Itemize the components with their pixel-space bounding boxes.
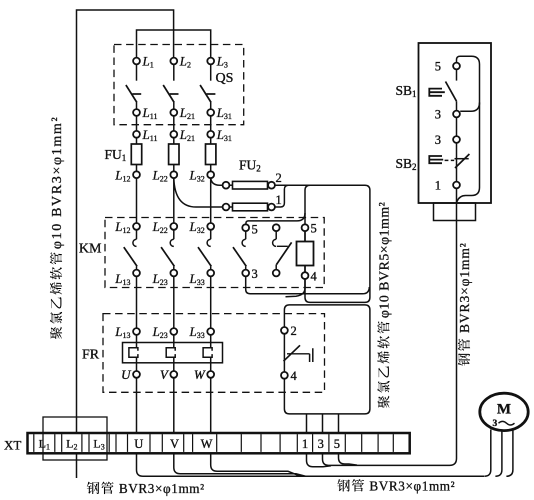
wire KM main 1 upper stub <box>136 230 138 239</box>
relay FR NC contact bar <box>287 353 310 355</box>
relay FR heater 1 top terminal L13 <box>133 328 140 335</box>
wire from QS L11 to fuse FU1 terminal <box>136 116 138 131</box>
contactor KM aux NC arc symbol <box>273 239 277 246</box>
svg-text:5: 5 <box>334 437 340 451</box>
wire from QS L21 to fuse FU1 terminal <box>173 116 175 131</box>
wire FR heater 1 stub <box>136 335 138 348</box>
wire L12 from FU1 to KM main contact <box>136 178 138 223</box>
svg-text:V: V <box>170 437 179 451</box>
label: steel pipe bottom-right <box>337 479 455 494</box>
relay FR heater block outline <box>123 343 223 363</box>
wire: three-phase supply run (left riser, top run, drop to QS) <box>77 10 174 478</box>
wire L32 from FU1 to KM main contact <box>210 178 212 223</box>
wire 3 from KM aux to conduit <box>246 276 370 293</box>
fuse FU1 pole 1 top terminal L11 <box>133 131 140 138</box>
relay FR NC contact: top terminal 2 <box>281 327 288 334</box>
wire FR heater 3 stub <box>210 335 212 348</box>
wire from KM L13 down to FR heater 1 <box>136 276 138 328</box>
SB terminal 3 (upper) <box>453 111 460 118</box>
wire stub below SB terminal 5 <box>456 69 458 80</box>
switch QS pole 2 crossbar <box>170 93 179 95</box>
SB terminal 1 <box>453 182 460 189</box>
label: steel pipe bottom-left <box>87 481 205 496</box>
relay FR NC contact blade <box>284 345 301 361</box>
switch QS pole 1 crossbar <box>132 93 141 95</box>
wire 1 riser joining control harness <box>275 185 288 207</box>
wire branch L32 to control fuse FU2 upper <box>211 178 223 185</box>
wire SB1 lower stub <box>456 101 458 110</box>
contactor KM aux NO blade <box>233 247 246 266</box>
FR thermal-relay enclosure (dashed) <box>103 314 325 393</box>
wire 3 from XT down to button-station pipe <box>323 453 329 465</box>
pushbutton SB2 NC blade <box>455 154 469 168</box>
fuse FU1 pole 2 body <box>169 144 179 165</box>
svg-text:XT: XT <box>4 438 21 453</box>
svg-text:W: W <box>201 437 213 451</box>
relay FR output terminal W <box>207 371 214 378</box>
contactor KM main 2 arc symbol <box>170 239 174 246</box>
wire: supply fan-out bridge to QS poles L1 and L3 <box>137 30 211 58</box>
wire stubs from conduit to XT terminals 1 3 5 <box>306 414 308 433</box>
contactor KM main 3 bottom terminal L33 <box>210 266 212 269</box>
wire FR heater 3 lower stub <box>210 357 212 371</box>
fuse FU2 upper output terminal, wire 2 <box>268 182 275 189</box>
svg-text:1: 1 <box>276 193 282 207</box>
fuse FU1 pole 3 body <box>206 144 216 165</box>
fuse FU1 pole 3 top terminal L31 <box>207 131 214 138</box>
relay FR output terminal V <box>170 371 177 378</box>
wire KM aux NC upper stub <box>275 231 277 239</box>
terminal strip XT cell dividers <box>33 434 35 452</box>
relay FR heater 3 element <box>203 348 212 358</box>
wire FR heater 1 lower stub <box>136 357 138 371</box>
svg-text:KM: KM <box>79 242 102 257</box>
relay FR NC contact: bottom terminal 4 <box>281 372 288 379</box>
SB terminal 5 <box>453 63 460 70</box>
wire SB2 spine <box>456 143 458 182</box>
relay FR NC reset hook <box>310 348 313 362</box>
label: PVC tube middle (rotated) <box>377 202 392 408</box>
contactor KM aux NC bar <box>277 245 288 247</box>
pushbutton SB1 NO blade <box>446 82 457 102</box>
svg-text:5: 5 <box>252 222 258 236</box>
contactor KM aux NC blade <box>276 242 291 264</box>
wire branch L22 to control fuse FU2 lower <box>174 178 223 207</box>
pushbutton SB1 actuator <box>429 89 445 96</box>
wire QS pole 1 upper stub <box>136 64 138 80</box>
svg-text:W: W <box>194 367 206 382</box>
coil KM bottom terminal 4 <box>304 266 306 273</box>
svg-text:U: U <box>134 437 143 451</box>
svg-text:BVR3×φ1mm²: BVR3×φ1mm² <box>369 479 455 494</box>
switch QS pole 2 blade <box>163 85 174 103</box>
SB terminal 3 (lower) <box>453 136 460 143</box>
fuse FU2 lower: input terminal <box>223 204 230 211</box>
coil KM body <box>297 242 314 266</box>
svg-text:4: 4 <box>291 369 298 383</box>
pushbutton SB2 NC bar <box>455 158 469 160</box>
switch QS pole 1: terminal L1 <box>133 58 140 65</box>
relay FR heater 1 element <box>129 348 138 358</box>
switch QS pole 2 lower terminal L21 <box>173 103 175 110</box>
button station cable entry <box>434 203 476 221</box>
wire from KM L33 down to FR heater 3 <box>210 276 212 328</box>
wire 5 branch to KM aux NO terminal 5 <box>246 213 305 224</box>
wire link between the two 3 terminals <box>456 117 458 136</box>
button station SB enclosure <box>419 43 492 203</box>
svg-text:U: U <box>121 367 132 382</box>
contactor KM main 2 bottom terminal L23 <box>173 266 175 269</box>
wire below terminal 1 exiting box <box>456 188 458 219</box>
relay FR output terminal U <box>133 371 140 378</box>
wire U from XT to motor <box>137 453 485 476</box>
fuse FU1 pole 2 bottom terminal L22 <box>170 171 177 178</box>
wire W from FR to terminal strip XT <box>210 378 212 433</box>
wire L22 from FU1 to KM main contact <box>173 178 175 223</box>
svg-text:3: 3 <box>493 419 498 429</box>
QS disconnect-switch enclosure (dashed) <box>114 45 244 125</box>
wire KM aux NO upper stub <box>245 231 247 239</box>
contactor KM main contact 2: top terminal L22 <box>170 223 177 230</box>
switch QS pole 3: terminal L3 <box>207 58 214 65</box>
wire SB harness loop (right side) with hook to terminal 3 <box>457 56 480 202</box>
wire 4 from KM coil toward FR <box>286 279 306 297</box>
svg-text:2: 2 <box>276 171 282 185</box>
pushbutton SB2 dashed link <box>445 159 455 161</box>
switch QS pole 2: terminal L2 <box>170 58 177 65</box>
svg-text:QS: QS <box>216 71 234 86</box>
svg-text:2: 2 <box>291 324 297 338</box>
relay FR heater 3 top terminal L33 <box>207 328 214 335</box>
svg-text:φ10 BVR3×φ1mm²: φ10 BVR3×φ1mm² <box>50 116 65 249</box>
wire V from FR to terminal strip XT <box>173 378 175 433</box>
pushbutton SB2 actuator <box>429 156 443 163</box>
wire KM main 2 upper stub <box>173 230 175 239</box>
wire 5 from XT down to button-station pipe <box>339 453 358 465</box>
label: steel pipe right (rotated) <box>457 242 472 365</box>
contactor KM main 1 blade <box>124 247 137 266</box>
PVC conduit lower section outline (rounded) with FR wires 2/4 <box>284 305 370 414</box>
contactor KM main 1 bottom terminal L13 <box>136 266 138 269</box>
wire motor lead 1 <box>484 430 491 477</box>
svg-text:3: 3 <box>435 108 441 122</box>
contactor KM auxiliary NC contact: top terminal <box>273 224 280 231</box>
svg-text:5: 5 <box>435 60 441 74</box>
svg-text:3: 3 <box>252 267 258 281</box>
contactor KM main contact 3: top terminal L32 <box>207 223 214 230</box>
motor M body <box>480 393 528 430</box>
contactor KM main contact 1: top terminal L12 <box>133 223 140 230</box>
switch QS pole 1 blade <box>126 85 137 103</box>
fuse FU1 pole 3 bottom terminal L32 <box>207 171 214 178</box>
wire through fuse FU1 pole 1 <box>136 138 138 172</box>
fuse FU2 upper body <box>229 184 232 186</box>
fuse FU1 pole 1 bottom terminal L12 <box>133 171 140 178</box>
wire from QS L31 to fuse FU1 terminal <box>210 116 212 131</box>
svg-text:FR: FR <box>82 348 100 363</box>
switch QS pole 1 lower terminal L11 <box>136 103 138 110</box>
wire U from FR to terminal strip XT <box>136 378 138 433</box>
wire through fuse FU1 pole 2 <box>173 138 175 172</box>
wire motor lead 3 <box>506 428 513 476</box>
switch QS pole 3 crossbar <box>207 93 216 95</box>
wire 1 from XT down to button-station pipe <box>307 453 332 467</box>
fuse FU1 pole 1 body <box>131 144 141 165</box>
wire motor lead 2 <box>495 431 502 477</box>
contactor KM main 2 blade <box>161 247 174 266</box>
svg-text:M: M <box>497 402 511 418</box>
wire QS pole 3 upper stub <box>210 64 212 80</box>
svg-text:1: 1 <box>302 437 308 451</box>
wire FR heater 2 lower stub <box>173 357 175 371</box>
wire coil upper stub <box>304 231 306 241</box>
wire from KM L23 down to FR heater 2 <box>173 276 175 328</box>
terminal strip XT body <box>28 433 410 453</box>
wire FR heater 2 stub <box>173 335 175 348</box>
contactor KM main 3 arc symbol <box>207 239 211 246</box>
KM contactor enclosure (dashed) <box>105 218 324 288</box>
contactor KM aux NO bottom terminal 3 <box>245 266 247 269</box>
coil KM top terminal 5 <box>302 224 309 231</box>
conduit entry box around XT L1-L3 <box>43 417 107 460</box>
relay FR heater 2 top terminal L23 <box>170 328 177 335</box>
label: PVC tube left (rotated) <box>50 116 65 339</box>
fuse FU2 lower output terminal, wire 1 <box>268 204 275 211</box>
wire V from XT to motor <box>174 453 306 476</box>
svg-text:3: 3 <box>318 437 324 451</box>
wire KM main 3 upper stub <box>210 230 212 239</box>
contactor KM aux NC bottom terminal <box>275 265 277 270</box>
svg-text:BVR3×φ1mm²: BVR3×φ1mm² <box>457 242 472 333</box>
svg-text:φ10 BVR5×φ1mm²: φ10 BVR5×φ1mm² <box>377 202 392 318</box>
contactor KM main 1 arc symbol <box>133 239 137 246</box>
wire harness 2 from FU2 + PVC conduit outline to SB / KM (rounded) <box>275 185 370 302</box>
fuse FU2 lower body <box>229 206 232 208</box>
relay FR heater 2 element <box>166 348 175 358</box>
contactor KM aux NO arc symbol <box>242 239 246 246</box>
wire: steel pipe riser to button station SB <box>329 219 457 465</box>
svg-text:4: 4 <box>311 270 318 284</box>
switch QS pole 3 blade <box>200 85 211 103</box>
svg-text:1: 1 <box>435 179 441 193</box>
wire through fuse FU1 pole 3 <box>210 138 212 172</box>
svg-text:3: 3 <box>435 133 441 147</box>
fuse FU2 upper: input terminal <box>223 182 230 189</box>
svg-text:5: 5 <box>311 222 317 236</box>
contactor KM auxiliary NO contact: top terminal 5 <box>242 224 249 231</box>
switch QS pole 3 lower terminal L31 <box>210 103 212 110</box>
wire QS pole 2 upper stub <box>173 64 175 80</box>
svg-text:BVR3×φ1mm²: BVR3×φ1mm² <box>119 481 205 496</box>
wire W from XT to motor <box>211 453 300 476</box>
contactor KM main 3 blade <box>198 247 211 266</box>
fuse FU1 pole 2 top terminal L21 <box>170 131 177 138</box>
